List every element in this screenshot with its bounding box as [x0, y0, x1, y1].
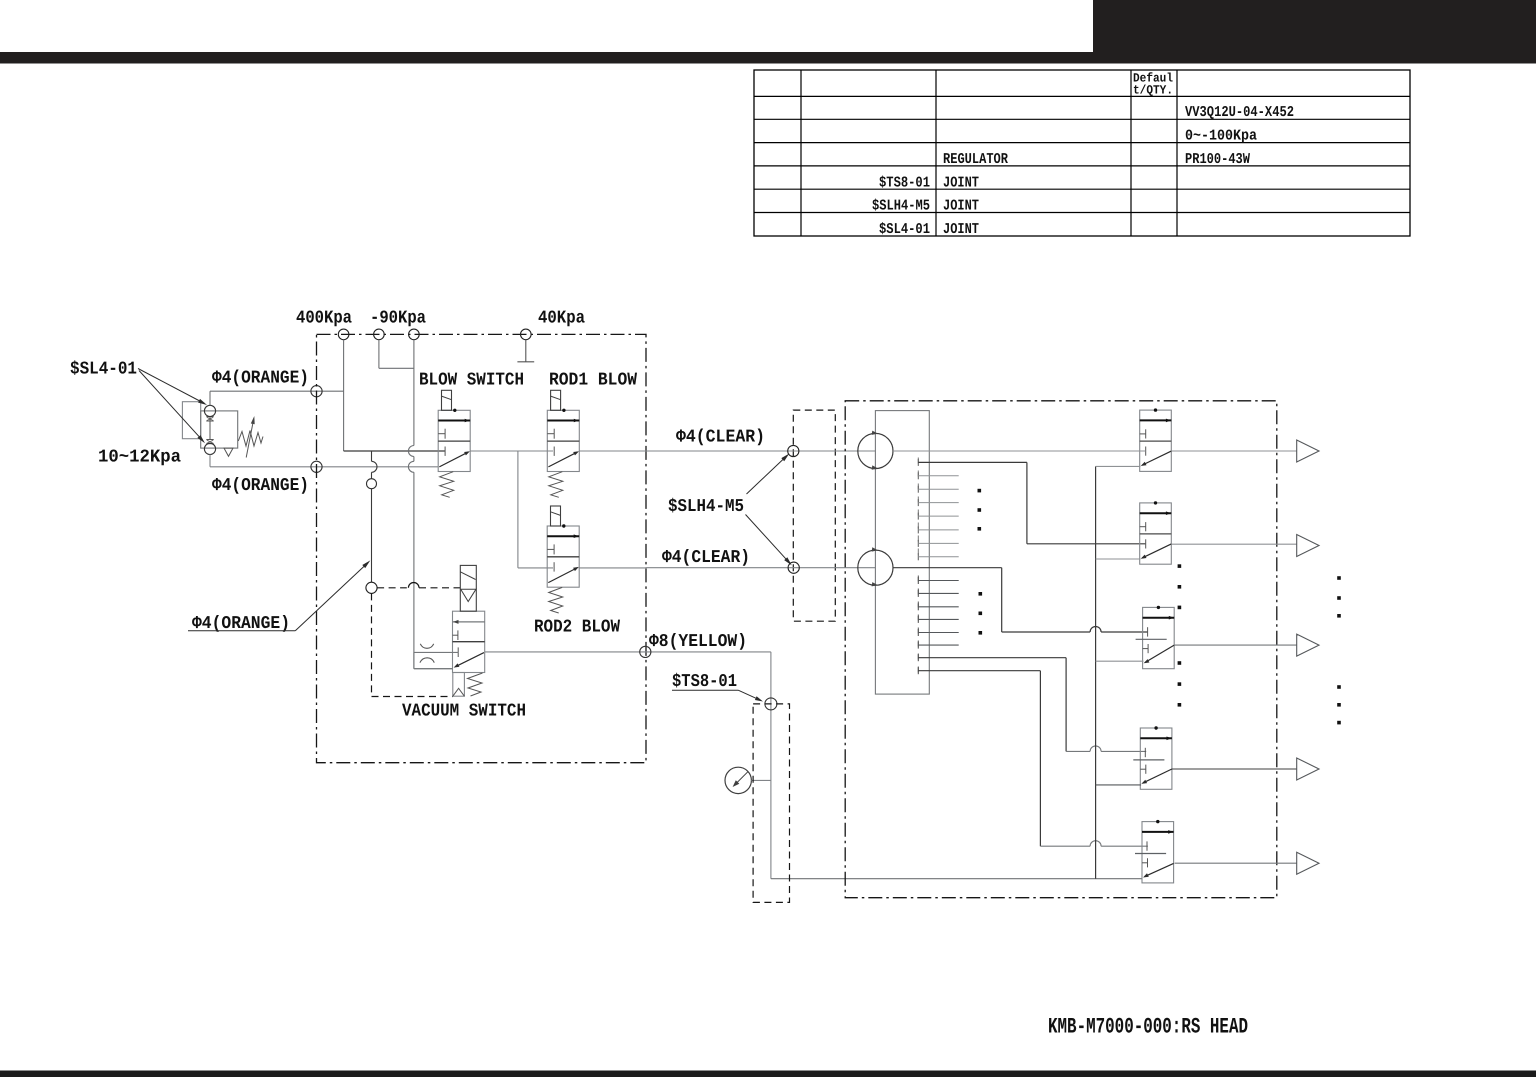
bottom border line: [0, 1071, 1536, 1077]
svg-text:-90Kpa: -90Kpa: [370, 309, 426, 329]
wire ROD2 branch: [517, 451, 519, 568]
joint circle orange lower on enclosure edge: [311, 461, 322, 472]
wire common exhaust vertical: [1095, 466, 1097, 878]
output nozzle triangle OUT1: [1297, 440, 1319, 462]
regulator spring: [238, 431, 263, 447]
vacuum switch T2 input: [457, 647, 459, 657]
leader SLH4-M5 to lower joint: [746, 515, 790, 564]
vacuum filter arcs: [420, 644, 433, 649]
vacuum filter box: [414, 651, 458, 653]
wire -90Kpa filter inlet: [414, 668, 453, 670]
svg-text:Φ8(YELLOW): Φ8(YELLOW): [649, 632, 747, 652]
title block top-right panel: [1093, 0, 1536, 64]
valve V4 exhaust wire: [1096, 784, 1142, 786]
wire port B8 to valve5: [918, 670, 1040, 672]
svg-text:$SLH4-M5: $SLH4-M5: [668, 497, 744, 517]
manifold body: [875, 411, 929, 694]
svg-text:PR100-43W: PR100-43W: [1185, 151, 1250, 168]
regulator adjust arrow: [246, 420, 253, 458]
svg-text:Φ4(CLEAR): Φ4(CLEAR): [676, 428, 765, 448]
svg-text:BLOW SWITCH: BLOW SWITCH: [419, 371, 524, 391]
enclosure box valves unit: [317, 334, 647, 762]
wire clear upper to manifold: [645, 450, 875, 452]
valve ROD2 BLOW: [547, 526, 579, 587]
leader $SL4-01 to bottom port: [139, 371, 203, 441]
svg-text:0~-100Kpa: 0~-100Kpa: [1185, 128, 1257, 145]
wire phi4 orange lower: regulator to blow switch: [209, 455, 211, 467]
title block top bar: [0, 52, 1536, 64]
manifold port B8 long: [917, 667, 919, 674]
joint circle orange upper on enclosure edge: [311, 386, 322, 397]
svg-text:$SLH4-M5: $SLH4-M5: [872, 198, 930, 215]
regulator REG1 outer block: [182, 402, 200, 439]
output nozzle triangle OUT3: [1297, 634, 1319, 656]
regulator internal wire: [209, 417, 211, 440]
coupler circle upper: [858, 433, 893, 468]
supply port circle 40Kpa: [521, 329, 532, 340]
wire port B7 to valve4: [918, 657, 1066, 659]
joint circle pilot inline: [367, 479, 377, 489]
svg-text:REGULATOR: REGULATOR: [943, 151, 1008, 168]
valve BLOW SWITCH: [438, 410, 470, 471]
joint circle SLH4 upper: [788, 445, 799, 456]
coupler circle lower: [858, 550, 893, 585]
svg-text:ROD1 BLOW: ROD1 BLOW: [549, 371, 637, 391]
valve station V3: [1143, 607, 1175, 668]
regulator port seat lower: [206, 439, 213, 441]
wire -90Kpa main drop with hops: [413, 340, 415, 446]
manifold port A3: [917, 486, 919, 493]
joint circle TS8 node: [765, 698, 777, 710]
valve V1 output wire: [1171, 450, 1296, 452]
svg-text:$SL4-01: $SL4-01: [879, 221, 930, 238]
valve station V2: [1140, 503, 1172, 564]
regulator REG1 body: [201, 411, 238, 448]
supply port circle 400Kpa: [338, 329, 349, 340]
ellipsis dots valves left upper: [1178, 564, 1182, 568]
svg-text:400Kpa: 400Kpa: [296, 309, 352, 329]
valve V2 exhaust wire: [1096, 558, 1141, 560]
svg-text:40Kpa: 40Kpa: [538, 309, 585, 329]
valve V5 output wire: [1175, 862, 1297, 864]
svg-text:$TS8-01: $TS8-01: [879, 174, 930, 191]
regulator relief triangle: [224, 448, 233, 456]
output nozzle triangle OUT2: [1297, 535, 1319, 557]
manifold port A1: [917, 459, 919, 466]
svg-text:10~12Kpa: 10~12Kpa: [98, 448, 181, 468]
manifold port B6: [917, 642, 919, 649]
wire clear lower to manifold: [645, 567, 875, 569]
valve V3 output wire: [1174, 644, 1297, 646]
wire 400Kpa drop: [343, 340, 345, 451]
valve station V1: [1140, 410, 1172, 471]
joint circle yellow on enclosure edge: [640, 646, 651, 657]
svg-text:Φ4(ORANGE): Φ4(ORANGE): [212, 476, 309, 496]
wire -90Kpa jumper: [378, 340, 380, 369]
wire 400Kpa to blow switch: [344, 450, 445, 452]
leader TS8-01 underline and arrow: [672, 689, 739, 691]
manifold port A6: [917, 526, 919, 533]
wire coupler2 to valve3: [893, 567, 1002, 569]
wire phi4 orange upper: regulator to 400Kpa drop: [210, 390, 344, 392]
wire yellow corner down: [770, 652, 772, 879]
parts table grid: [754, 70, 1410, 236]
dashed box SLH4-M5 joints: [793, 410, 835, 621]
vacuum switch spring: [468, 673, 483, 696]
svg-text:ROD2 BLOW: ROD2 BLOW: [534, 618, 620, 638]
manifold port B3: [917, 603, 919, 610]
vacuum switch flow arrow left: [453, 621, 485, 623]
manifold port A7: [917, 540, 919, 547]
ellipsis dots outputs lower: [1337, 685, 1341, 689]
valve ROD1 BLOW: [547, 410, 579, 471]
manifold port A2: [917, 472, 919, 479]
manifold port B7 long: [917, 654, 919, 661]
gauge stub wire: [751, 779, 771, 781]
wire phi8 yellow from vacuum switch: [485, 651, 771, 653]
leader SLH4-M5 to upper joint: [747, 456, 788, 494]
gauge G1: [725, 767, 751, 793]
valve V4 output wire: [1172, 768, 1297, 770]
valve station V5: [1142, 822, 1174, 883]
manifold port B2: [917, 590, 919, 597]
output nozzle triangle OUT4: [1297, 758, 1319, 780]
leader phi4 orange pilot underline and arrow: [188, 630, 295, 632]
leader $SL4-01 to top port: [138, 369, 205, 404]
ellipsis dots manifold upper: [978, 489, 982, 493]
regulator port seat upper: [206, 416, 213, 418]
wire 40Kpa stub: [525, 340, 527, 362]
vacuum switch diagonal: [456, 653, 484, 667]
manifold port A5: [917, 513, 919, 520]
valve V3 exhaust wire: [1096, 660, 1144, 662]
enclosure box manifold unit: [845, 401, 1277, 898]
ellipsis dots manifold lower: [979, 592, 983, 596]
manifold port rail lower: [917, 576, 919, 676]
svg-text:$TS8-01: $TS8-01: [672, 672, 737, 692]
valve V2 output wire: [1171, 543, 1296, 545]
supply port circle -90Kpa a: [374, 329, 385, 340]
vacuum switch T1: [453, 634, 458, 636]
wire yellow bottom run to manifold valves: [771, 878, 1142, 880]
wire blow bus to ROD1: [470, 450, 553, 452]
manifold port B4: [917, 616, 919, 623]
joint circle SLH4 lower: [788, 562, 799, 573]
joint circle regulator top port: [204, 405, 215, 416]
valve VACUUM SWITCH body: [453, 611, 485, 672]
valve V1 input wire: [893, 450, 1146, 452]
joint circle regulator bottom port: [204, 443, 215, 454]
ellipsis dots valves left lower: [1178, 661, 1182, 665]
svg-text:KMB-M7000-000:RS HEAD: KMB-M7000-000:RS HEAD: [1048, 1015, 1248, 1040]
pilot dashed line to vacuum switch actuator: [377, 587, 407, 589]
vacuum switch divider: [453, 641, 485, 643]
manifold port B1: [917, 577, 919, 584]
pilot dashed bottom to exhaust: [372, 696, 453, 698]
vacuum switch exhaust stem: [453, 673, 465, 697]
vacuum switch actuator: [460, 565, 476, 611]
svg-text:VV3Q12U-04-X452: VV3Q12U-04-X452: [1185, 104, 1294, 121]
svg-text:t/QTY.: t/QTY.: [1133, 84, 1173, 98]
svg-text:JOINT: JOINT: [943, 198, 979, 215]
manifold port B5: [917, 629, 919, 636]
wire ROD2 output to clear node: [579, 567, 646, 569]
svg-text:JOINT: JOINT: [943, 221, 979, 238]
svg-text:$SL4-01: $SL4-01: [70, 360, 137, 380]
manifold port A4: [917, 499, 919, 506]
valve station V4: [1140, 728, 1172, 789]
svg-text:JOINT: JOINT: [943, 174, 979, 191]
svg-text:VACUUM SWITCH: VACUUM SWITCH: [402, 702, 526, 722]
output nozzle triangle OUT5: [1297, 852, 1319, 874]
pilot dashed left side: [371, 593, 373, 696]
valve V1 exhaust wire: [1096, 465, 1141, 467]
manifold port A8: [917, 553, 919, 560]
ellipsis dots outputs upper: [1337, 576, 1341, 580]
svg-text:Φ4(CLEAR): Φ4(CLEAR): [662, 548, 750, 568]
supply port circle -90Kpa b: [409, 329, 420, 340]
wire pilot branch down with hop: [371, 451, 373, 461]
manifold port rail upper: [917, 458, 919, 562]
wire port A1 to valve2: [918, 461, 1027, 463]
joint circle pilot node: [366, 582, 377, 593]
svg-text:Φ4(ORANGE): Φ4(ORANGE): [212, 369, 309, 389]
dashed box TS8-01 joint: [753, 704, 789, 903]
